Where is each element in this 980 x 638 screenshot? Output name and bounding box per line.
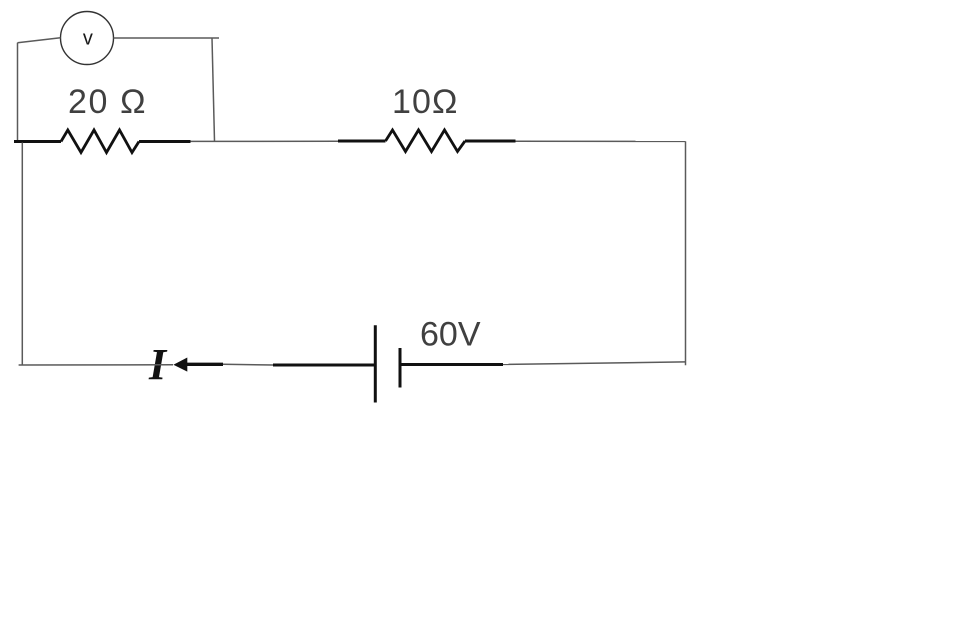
current arrow I xyxy=(173,358,223,372)
svg-text:60V: 60V xyxy=(420,316,481,354)
wire bottom right (slanted) xyxy=(503,362,686,365)
wire voltmeter left vertical xyxy=(17,43,19,142)
voltmeter V xyxy=(61,12,114,65)
wire bottom left xyxy=(19,364,173,366)
wire voltmeter right vertical xyxy=(212,38,215,141)
svg-text:10Ω: 10Ω xyxy=(392,83,459,121)
wire top right xyxy=(516,140,686,142)
wire top middle xyxy=(191,140,339,142)
svg-text:20 Ω: 20 Ω xyxy=(68,83,147,121)
resistor R1 20 ohm xyxy=(14,130,191,153)
wire right vertical xyxy=(685,141,687,365)
wire left vertical xyxy=(21,143,23,365)
wire voltmeter left lead (slanted) xyxy=(18,38,61,43)
wire bottom middle xyxy=(223,363,274,366)
battery B1 60V xyxy=(273,325,503,402)
svg-text:v: v xyxy=(83,27,93,49)
wire voltmeter right lead xyxy=(114,37,220,39)
resistor R2 10 ohm xyxy=(338,130,516,152)
